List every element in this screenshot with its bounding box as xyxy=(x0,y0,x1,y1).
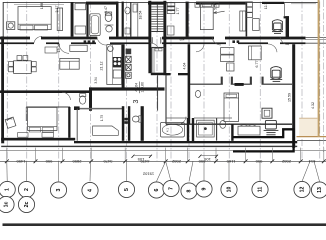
wc2 fixtures xyxy=(125,7,130,14)
elevator xyxy=(152,48,165,74)
svg-text:13: 13 xyxy=(317,187,323,193)
office chair room C xyxy=(272,20,283,34)
balcony outline xyxy=(233,129,294,151)
stair door marks xyxy=(151,37,153,43)
svg-text:3.17: 3.17 xyxy=(55,6,59,13)
dimension values (rotated 180) xyxy=(16,157,316,176)
mini dim slashes xyxy=(132,155,219,158)
desk chair bottom-right xyxy=(264,120,279,134)
stair treads xyxy=(151,4,163,31)
corridor level markers xyxy=(84,40,240,43)
svg-text:5.16: 5.16 xyxy=(214,3,218,10)
axis bubble 11 xyxy=(252,181,268,197)
bathtub bottom (horizontal) xyxy=(160,122,184,137)
svg-text:3.47: 3.47 xyxy=(104,6,108,13)
svg-text:6: 6 xyxy=(154,188,160,191)
toilet bottom-right room xyxy=(220,121,226,129)
svg-text:44,64: 44,64 xyxy=(135,83,139,92)
axis bubble 7 xyxy=(163,180,179,196)
stairwell right wall xyxy=(163,1,166,75)
svg-text:1: 1 xyxy=(5,188,11,191)
svg-text:12: 12 xyxy=(300,187,306,193)
wardrobe room B right xyxy=(240,11,246,31)
bath row top wall (gray) xyxy=(76,108,122,110)
wall between bedroom1 and closet xyxy=(71,2,74,37)
corridor bottom wall xyxy=(0,42,34,44)
sofa room C2 xyxy=(249,46,262,60)
nightstand room B xyxy=(195,3,200,8)
axis bubble 9 xyxy=(196,181,212,197)
wall x89 below band xyxy=(89,87,92,110)
dimension line xyxy=(0,160,326,162)
bathroom left wall xyxy=(86,2,88,37)
bathroom right wall xyxy=(116,2,119,37)
axis bubble 2c xyxy=(18,196,34,212)
kitchen right wall xyxy=(122,44,125,87)
svg-text:4.32: 4.32 xyxy=(311,102,315,109)
axis bubble 1 xyxy=(0,181,15,197)
leader arrow 5.16 xyxy=(214,11,225,13)
dresser room C xyxy=(253,19,260,31)
bottom exterior wall xyxy=(1,138,75,141)
tan terrace fill xyxy=(299,118,317,136)
svg-text:18.54: 18.54 xyxy=(139,11,143,20)
hall cross-wall stubs xyxy=(166,73,171,75)
svg-text:2c: 2c xyxy=(24,202,30,208)
hall walls below stair xyxy=(157,75,159,110)
svg-text:1160: 1160 xyxy=(226,159,235,164)
axis bubble 2 xyxy=(18,181,34,197)
svg-text:3470: 3470 xyxy=(103,159,113,164)
bed B1 top-left xyxy=(18,7,51,30)
stairwell bottom wall xyxy=(151,73,169,75)
wc right wall xyxy=(141,106,144,141)
bedroom sub-room walls xyxy=(26,106,70,108)
svg-text:15.36: 15.36 xyxy=(57,44,61,53)
closet walls xyxy=(122,2,124,37)
corridor top wall xyxy=(0,37,30,40)
svg-text:19102: 19102 xyxy=(142,171,154,176)
wall right of room A xyxy=(186,2,189,37)
axis bubble 8 xyxy=(181,183,197,199)
axis bubble 3 xyxy=(50,182,66,198)
svg-text:15.59: 15.59 xyxy=(288,93,292,102)
closet shelves xyxy=(75,3,86,9)
svg-text:4,64: 4,64 xyxy=(182,63,186,70)
grid axis lines xyxy=(7,2,320,162)
wardrobe stack room C xyxy=(246,2,253,18)
wall room B / C xyxy=(246,2,248,37)
small square top of bottom-right room xyxy=(262,108,272,118)
wall face line xyxy=(0,150,326,152)
armchair A2 (angled) xyxy=(5,117,16,128)
svg-text:990: 990 xyxy=(45,159,52,164)
nightstand N1 xyxy=(7,22,15,30)
wc mid-left xyxy=(79,96,85,104)
office chair + desk C2 xyxy=(270,67,282,82)
axis bubble 6 xyxy=(148,182,164,198)
svg-text:2082: 2082 xyxy=(171,159,181,164)
svg-text:8x4: 8x4 xyxy=(180,38,185,42)
top exterior wall xyxy=(3,1,319,3)
hall toilet xyxy=(195,91,200,98)
bed B4 bottom-left (vertical) xyxy=(28,107,57,130)
room area labels xyxy=(40,3,315,132)
bathtub bath1 xyxy=(90,14,101,36)
benches below bed xyxy=(18,133,28,138)
svg-text:2890: 2890 xyxy=(72,159,82,164)
svg-text:110,80: 110,80 xyxy=(140,82,144,92)
svg-text:2082: 2082 xyxy=(281,159,291,164)
svg-text:3: 3 xyxy=(133,99,140,103)
svg-text:1490: 1490 xyxy=(16,159,26,164)
tan right wall line xyxy=(318,0,320,137)
svg-text:4.1: 4.1 xyxy=(166,128,170,133)
bed B3 (vertical, right-middle) xyxy=(224,93,239,121)
svg-text:2: 2 xyxy=(24,188,30,191)
stair landing line xyxy=(151,31,163,33)
axis bubble 12 xyxy=(294,181,310,197)
wardrobe room B2 xyxy=(221,48,234,71)
svg-text:5: 5 xyxy=(124,188,130,191)
sink bath1 xyxy=(106,26,112,32)
kitchen counter xyxy=(107,45,122,85)
svg-text:1.77: 1.77 xyxy=(176,8,180,15)
dimension ticks xyxy=(5,159,326,163)
axis bubble 13 xyxy=(311,182,326,198)
svg-text:11: 11 xyxy=(258,187,264,193)
kitchen sink xyxy=(108,46,114,52)
duct boxes kitchen xyxy=(126,49,132,55)
svg-text:6.77: 6.77 xyxy=(255,61,259,68)
shower xyxy=(197,120,215,137)
bed B2 room B (vertical) xyxy=(200,3,213,30)
svg-text:10: 10 xyxy=(227,187,233,193)
wall pair x187-194 bottom xyxy=(187,118,189,141)
svg-text:1c: 1c xyxy=(4,202,10,208)
wardrobe W1 xyxy=(57,8,62,30)
wall x189 middle rooms xyxy=(188,44,191,124)
stairwell left wall xyxy=(148,1,151,73)
cross wall y84 right half xyxy=(190,83,223,85)
left exterior wall xyxy=(1,36,4,140)
wall x292 middle xyxy=(292,44,295,148)
bottom-right sideboard xyxy=(238,126,260,135)
bottom border line xyxy=(3,223,326,226)
svg-text:990: 990 xyxy=(255,159,262,164)
svg-text:9: 9 xyxy=(202,187,208,190)
vestibule wall top-right xyxy=(286,16,289,38)
svg-text:21.12: 21.12 xyxy=(100,62,104,71)
tick verticals xyxy=(7,148,324,162)
svg-text:105: 105 xyxy=(203,157,210,162)
svg-text:1.88: 1.88 xyxy=(40,3,44,9)
middle rooms bottom wall y124 xyxy=(166,123,292,125)
svg-text:3: 3 xyxy=(56,188,62,191)
svg-text:7: 7 xyxy=(169,187,175,190)
duct shaft walls xyxy=(122,106,125,141)
living/kitchen bottom wall band B xyxy=(0,90,92,93)
toilet bath1 xyxy=(105,13,112,22)
door jambs y76-84 xyxy=(221,77,264,85)
svg-text:1.75: 1.75 xyxy=(100,115,104,121)
svg-text:12.3: 12.3 xyxy=(264,3,268,9)
tv stand xyxy=(70,45,87,51)
wall x232 bottom-right room xyxy=(231,124,233,141)
svg-text:8: 8 xyxy=(187,189,193,192)
door arcs xyxy=(34,36,289,124)
dining table xyxy=(14,61,32,74)
sofa xyxy=(60,58,79,69)
svg-text:105: 105 xyxy=(137,157,144,162)
axis bubble 5 xyxy=(118,181,134,197)
bubble leader lines xyxy=(7,161,320,181)
stove burners xyxy=(113,57,122,67)
bath row fixtures xyxy=(93,126,119,135)
axis bubble 10 xyxy=(221,181,237,197)
svg-text:4: 4 xyxy=(88,189,94,192)
svg-text:3.34: 3.34 xyxy=(94,77,98,83)
room A wardrobe with bars xyxy=(167,3,175,14)
axis bubble 4 xyxy=(82,182,98,198)
axis bubble 1c xyxy=(0,196,14,212)
